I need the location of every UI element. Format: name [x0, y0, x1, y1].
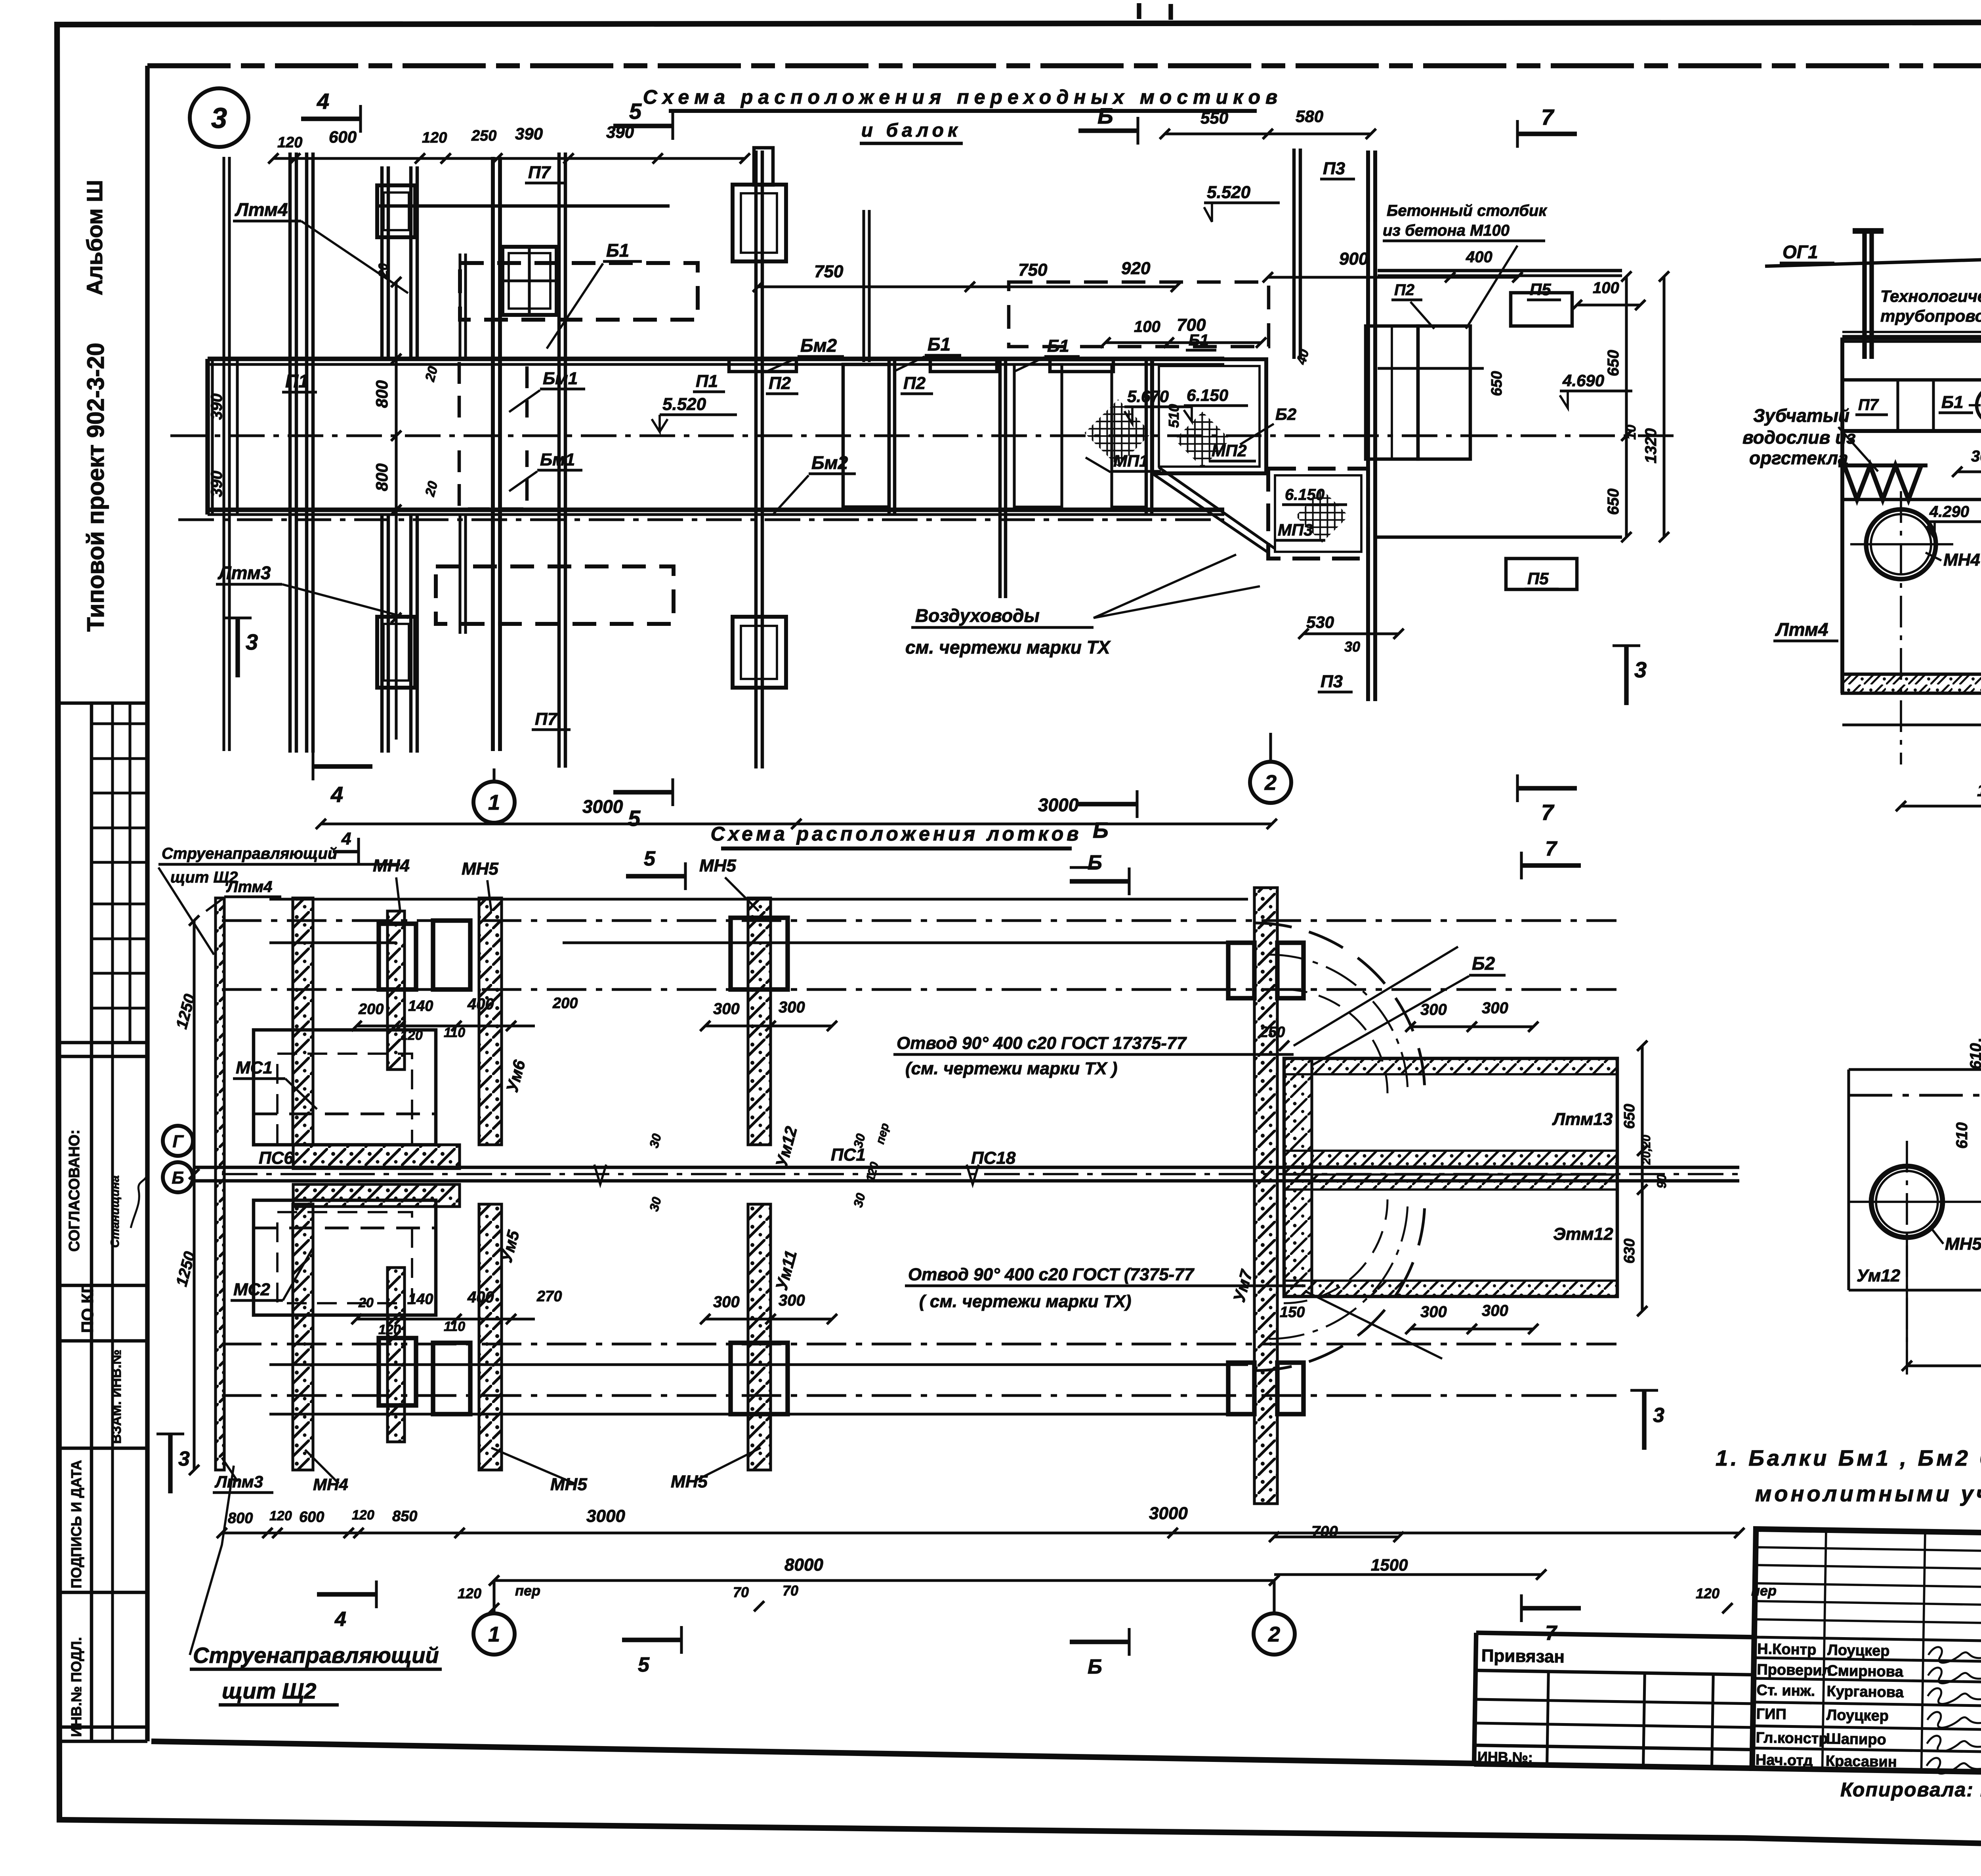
svg-text:Схема расположения переходных: Схема расположения переходных мостиков: [643, 86, 1283, 108]
svg-text:Отвод 90° 400 с20 ГОСТ (7375-7: Отвод 90° 400 с20 ГОСТ (7375-77: [908, 1265, 1195, 1284]
svg-text:Лтм3: Лтм3: [218, 562, 271, 583]
sec44 big circle left: [1866, 509, 1936, 579]
plan1 right vertical dims: [1625, 276, 1628, 537]
svg-text:П2: П2: [903, 374, 926, 393]
plan1 wall inband 3: [1145, 359, 1148, 515]
svg-text:3: 3: [178, 1447, 190, 1470]
svg-text:пер: пер: [515, 1582, 540, 1599]
plan1 wall P7 line: [557, 153, 561, 768]
plan1 box Bm2: [843, 364, 889, 507]
svg-text:110: 110: [444, 1319, 465, 1334]
plan2 MC1 structure: [254, 1030, 436, 1145]
svg-text:П2: П2: [769, 374, 791, 393]
sec44 handrail posts: [1862, 231, 1866, 359]
plan1 wall inband 2: [998, 359, 1002, 598]
plan1 vdim 800: [395, 282, 397, 740]
sec44 pipe circles: [1977, 387, 1981, 423]
svg-text:650: 650: [1621, 1104, 1638, 1129]
svg-text:Б1: Б1: [1941, 393, 1964, 412]
svg-text:Б2: Б2: [1472, 953, 1495, 974]
plan1 sec mark 4 top: [301, 116, 361, 121]
svg-text:монолитными участками стен.: монолитными участками стен.: [1755, 1481, 1981, 1506]
svg-text:700: 700: [1311, 1523, 1338, 1540]
svg-text:Нач.отд: Нач.отд: [1756, 1752, 1813, 1769]
svg-text:Ум12: Ум12: [1857, 1266, 1901, 1285]
plan1 dim 530: [1303, 632, 1399, 635]
plan2 axis dashdot top1: [222, 919, 1616, 922]
plan1 sec mark 4 bottom: [313, 764, 372, 768]
svg-text:3: 3: [1634, 657, 1647, 682]
plan2 grid circle 2: [1254, 1613, 1295, 1655]
svg-text:1320: 1320: [1642, 428, 1660, 463]
plan2 grid circle 1: [473, 1613, 515, 1655]
svg-text:МС1: МС1: [236, 1058, 273, 1077]
svg-text:П7: П7: [535, 709, 558, 729]
plan2 sec mark 7 bottom: [1521, 1606, 1581, 1610]
svg-text:СОГЛАСОВАНО:: СОГЛАСОВАНО:: [66, 1129, 83, 1252]
plan2 axis dashdot bot1: [222, 1342, 1616, 1345]
plan2 outlet left cap: [1284, 1058, 1312, 1296]
plan1 column P1: [380, 166, 384, 359]
svg-text:530: 530: [1306, 613, 1334, 631]
plan2 axis B channel: [194, 1166, 1739, 1169]
svg-text:4: 4: [317, 89, 329, 114]
plan2 channel breaks: [594, 1165, 606, 1184]
svg-text:70: 70: [733, 1584, 749, 1600]
svg-text:П1: П1: [285, 371, 309, 391]
plan1 top dim row: [273, 157, 745, 160]
svg-text:МН5: МН5: [1945, 1234, 1981, 1254]
svg-text:Б1: Б1: [928, 334, 950, 355]
plan2 pad boxes top: [379, 924, 416, 989]
plan2 outlet hatch mid: [1284, 1151, 1617, 1167]
inner drawing frame left: [145, 66, 149, 1741]
plan2 outlet channel frame: [1284, 1058, 1617, 1296]
svg-text:МН5: МН5: [699, 856, 736, 875]
plan1 mid verticals top2: [1292, 149, 1296, 359]
left strip verticals: [90, 703, 94, 1741]
svg-text:250: 250: [1260, 1024, 1285, 1041]
sec44 dim 1250 1250: [1901, 805, 1981, 807]
plan1 dim 700: [1105, 341, 1261, 344]
sec44 beam cells verticals: [1896, 380, 1899, 431]
svg-text:щит Щ2: щит Щ2: [170, 869, 238, 886]
plan1 axis B dash-dot: [170, 434, 1482, 437]
svg-text:Лтм13: Лтм13: [1552, 1110, 1613, 1129]
sec55 left frame lines: [1847, 1070, 1850, 1290]
plan1 grid circle 1: [473, 782, 515, 823]
svg-text:120: 120: [269, 1508, 292, 1523]
plan1 wall A pair: [288, 153, 292, 753]
svg-text:Бм1: Бм1: [540, 450, 575, 469]
plan2 bottom dims row1: [222, 1531, 460, 1534]
svg-text:5: 5: [638, 1653, 650, 1676]
sec44 bottom slab: [1842, 674, 1981, 693]
title block: [1474, 1525, 1981, 1783]
svg-text:100: 100: [1134, 318, 1160, 336]
svg-text:Струенаправляющий: Струенаправляющий: [162, 845, 337, 862]
svg-text:ПОДПИСЬ И ДАТА: ПОДПИСЬ И ДАТА: [68, 1460, 84, 1588]
svg-text:270: 270: [536, 1288, 562, 1305]
svg-text:3: 3: [1653, 1404, 1664, 1427]
svg-text:10: 10: [1624, 425, 1639, 440]
svg-text:400: 400: [1466, 248, 1492, 266]
plan2 dims top mid2: [705, 1024, 832, 1027]
svg-text:Лоуцкер: Лоуцкер: [1827, 1642, 1890, 1659]
svg-text:5.520: 5.520: [1207, 183, 1251, 202]
svg-text:3: 3: [211, 103, 227, 134]
svg-text:1500: 1500: [1371, 1556, 1408, 1574]
svg-text:из бетона М100: из бетона М100: [1383, 222, 1510, 239]
plan2 outlet hatch bottom: [1284, 1281, 1617, 1296]
plan2 outlet hatch top: [1284, 1058, 1617, 1074]
svg-text:Б: Б: [1097, 103, 1113, 128]
svg-text:Б: Б: [1088, 1655, 1102, 1678]
plan1 wall A box top: [377, 185, 415, 237]
sec44 lower zone line: [1842, 498, 1981, 501]
plan2 sec mark 3 right: [1642, 1390, 1646, 1450]
svg-text:1: 1: [488, 791, 500, 814]
plan2 grid circle B: [163, 1162, 193, 1192]
plan1 grid circle 3: [190, 88, 248, 147]
svg-text:Зубчатый: Зубчатый: [1753, 405, 1849, 426]
plan1 wall inband 1: [887, 359, 891, 515]
sec44 beam row top: [1842, 378, 1981, 382]
plan1 sec mark B bottom: [1078, 802, 1137, 806]
svg-text:920: 920: [1121, 259, 1151, 278]
svg-text:300: 300: [713, 1293, 740, 1311]
svg-text:Лтм3: Лтм3: [214, 1472, 263, 1491]
svg-text:120: 120: [352, 1508, 374, 1523]
svg-text:650: 650: [1489, 371, 1505, 396]
svg-text:150: 150: [1280, 1304, 1305, 1321]
plan2 MC2 structure: [254, 1200, 436, 1315]
svg-text:300: 300: [713, 1000, 740, 1018]
svg-text:Гл.констр: Гл.констр: [1756, 1729, 1828, 1747]
svg-text:П5: П5: [1527, 569, 1549, 588]
svg-text:Смирнова: Смирнова: [1827, 1662, 1904, 1680]
svg-text:Б: Б: [1088, 851, 1102, 874]
plan2 sec mark 4 bottom: [317, 1592, 376, 1596]
svg-text:800: 800: [372, 380, 391, 408]
svg-text:650: 650: [1605, 350, 1622, 376]
svg-text:140: 140: [408, 998, 433, 1014]
svg-text:8000: 8000: [784, 1555, 823, 1575]
svg-text:4.690: 4.690: [1562, 371, 1604, 390]
svg-text:600: 600: [329, 128, 357, 146]
plan2 dim 300 300 outlet bot: [1410, 1327, 1533, 1330]
plan2 sec mark 3 left: [168, 1434, 172, 1493]
svg-text:П7: П7: [1858, 396, 1879, 414]
svg-text:Б: Б: [1093, 818, 1109, 843]
plan1 diag to MP3: [1152, 473, 1268, 553]
svg-text:П7: П7: [528, 163, 552, 182]
svg-text:( см. чертежи марки ТХ): ( см. чертежи марки ТХ): [919, 1292, 1131, 1311]
plan2 hatched walls: [216, 898, 224, 1470]
svg-text:7: 7: [1541, 105, 1555, 130]
svg-text:4: 4: [341, 829, 351, 848]
svg-text:110: 110: [444, 1025, 465, 1040]
svg-text:Привязан: Привязан: [1481, 1646, 1565, 1666]
svg-text:200: 200: [552, 995, 578, 1012]
plan2 sec mark B top: [1070, 879, 1129, 883]
plan1 axis B circle: [170, 442, 174, 446]
svg-text:7: 7: [1541, 800, 1555, 825]
svg-text:1. Балки Бм1 , Бм2 бетонироват: 1. Балки Бм1 , Бм2 бетонировать одноврем…: [1716, 1445, 1981, 1470]
plan2 bot channel lines: [269, 1363, 1248, 1366]
svg-text:П3: П3: [1323, 159, 1345, 178]
svg-text:550: 550: [1200, 109, 1228, 127]
plan1 hatch MP3: [1296, 490, 1349, 543]
plan2 bottom dim 8000: [494, 1579, 1274, 1582]
plan1 Bm1 brackets top: [459, 358, 527, 418]
svg-text:Лтм4: Лтм4: [235, 199, 288, 220]
svg-text:6.150: 6.150: [1285, 486, 1324, 503]
svg-text:Г: Г: [172, 1132, 184, 1151]
svg-text:П1: П1: [696, 372, 718, 391]
svg-text:300: 300: [1482, 999, 1508, 1017]
svg-text:водослив из: водослив из: [1742, 427, 1856, 448]
svg-text:ОГ1: ОГ1: [1783, 242, 1818, 262]
plan1 band left cap: [205, 359, 210, 515]
svg-text:Отвод 90° 400 с20 ГОСТ 17375-7: Отвод 90° 400 с20 ГОСТ 17375-77: [897, 1033, 1187, 1053]
plan1 window box: [502, 247, 557, 315]
svg-text:4.290: 4.290: [1929, 503, 1969, 520]
sec44 teeth left: [1844, 465, 1921, 500]
plan1 sec mark 5 top: [613, 124, 673, 128]
svg-text:250: 250: [471, 128, 496, 144]
sec44 dim row mid: [1957, 470, 1981, 473]
svg-text:120: 120: [1696, 1585, 1720, 1601]
plan2 dims bot mid: [357, 1317, 535, 1320]
left strip upper table rows: [92, 722, 147, 725]
svg-text:7: 7: [1545, 837, 1557, 860]
svg-text:610: 610: [1953, 1122, 1971, 1149]
svg-text:5: 5: [644, 847, 656, 870]
svg-text:850: 850: [392, 1508, 417, 1525]
plan1 box P5 top: [1511, 293, 1572, 326]
svg-text:Бм2: Бм2: [811, 452, 848, 473]
svg-text:МН4: МН4: [313, 1475, 348, 1494]
svg-text:750: 750: [1018, 260, 1048, 280]
plan1 sec mark 7 top: [1517, 132, 1577, 136]
plan2 curve arcs top: [1254, 923, 1425, 1093]
sec55 axis dash: [1849, 1094, 1981, 1096]
inner drawing frame top dashed: [147, 63, 1981, 69]
svg-text:3000: 3000: [582, 796, 623, 817]
svg-text:300: 300: [1482, 1302, 1508, 1319]
svg-text:30: 30: [1344, 639, 1360, 655]
svg-text:3000: 3000: [1038, 795, 1079, 815]
plan1 beam B1 dashed bottom: [436, 566, 674, 624]
svg-text:Б2: Б2: [1275, 405, 1296, 423]
svg-text:Схема расположения лотков: Схема расположения лотков: [711, 823, 1082, 845]
svg-text:Шапиро: Шапиро: [1826, 1731, 1886, 1748]
svg-text:3: 3: [246, 629, 258, 654]
svg-text:МН4: МН4: [373, 856, 410, 875]
svg-text:П5: П5: [1530, 280, 1551, 299]
plan1 wall B mid: [458, 254, 461, 359]
svg-text:ИНВ.№ ПОДЛ.: ИНВ.№ ПОДЛ.: [68, 1637, 84, 1737]
sec55 dim 1250 1250: [1907, 1364, 1981, 1367]
plan2 sec mark 7 top: [1521, 863, 1581, 867]
top registration ticks: [1137, 3, 1141, 19]
svg-text:90: 90: [1655, 1174, 1669, 1188]
svg-text:390: 390: [515, 124, 543, 143]
plan1 mid wall boxes: [733, 185, 786, 261]
svg-text:6.150: 6.150: [1187, 386, 1228, 404]
plan1 bench columns: [1366, 326, 1418, 459]
svg-text:Лоуцкер: Лоуцкер: [1826, 1707, 1889, 1724]
svg-text:МН4: МН4: [1943, 550, 1980, 570]
inner drawing frame bottom: [151, 1741, 1478, 1764]
svg-text:МН5: МН5: [671, 1472, 708, 1491]
plan2 dims top mid: [357, 1024, 535, 1027]
svg-text:ПС6: ПС6: [259, 1148, 294, 1168]
plan2 dim 300 300 outlet top: [1410, 1025, 1533, 1028]
svg-text:630: 630: [1621, 1239, 1638, 1264]
svg-text:МС2: МС2: [233, 1280, 270, 1299]
svg-text:щит Щ2: щит Щ2: [222, 1678, 316, 1703]
plan1 junction wall grid2: [1366, 151, 1370, 701]
svg-text:(см. чертежи марки ТХ ): (см. чертежи марки ТХ ): [905, 1059, 1117, 1078]
svg-text:Б: Б: [172, 1168, 184, 1188]
svg-text:800: 800: [372, 463, 391, 491]
svg-text:5: 5: [628, 806, 641, 831]
plan1 wall Ltm4 line: [222, 157, 225, 751]
svg-text:Курганова: Курганова: [1826, 1683, 1904, 1701]
svg-text:120: 120: [400, 1028, 423, 1043]
plan1 Bm1 brackets bottom: [459, 450, 527, 509]
plan1 sec mark 3 left: [235, 618, 240, 677]
svg-text:и балок: и балок: [861, 120, 962, 141]
svg-text:3000: 3000: [586, 1506, 625, 1526]
plan1 junction box MP3: [1268, 469, 1368, 559]
plan1 right top verticals: [1366, 151, 1370, 222]
svg-text:ГИП: ГИП: [1756, 1706, 1786, 1723]
sec44 rail line left: [1765, 256, 1981, 266]
svg-text:600: 600: [299, 1509, 324, 1525]
svg-text:Альбом Ш: Альбом Ш: [82, 180, 107, 296]
svg-text:300: 300: [1420, 1303, 1447, 1321]
plan1 dim 750 750 920: [758, 285, 1176, 288]
plan2 pad boxes bottom: [379, 1338, 416, 1405]
plan1 top platform line: [376, 204, 670, 208]
svg-text:Н.Контр: Н.Контр: [1757, 1641, 1817, 1658]
svg-text:ВЗАМ. ИНВ.№: ВЗАМ. ИНВ.№: [109, 1350, 124, 1444]
sec55 big circle left: [1871, 1166, 1943, 1237]
plan1 grid circle 2: [1250, 762, 1291, 803]
plan1 sec mark B top: [1078, 128, 1138, 133]
plan1 sec mark 7 bottom: [1517, 786, 1577, 790]
plan1 mid verticals top: [862, 210, 865, 362]
left strip lower table rows: [57, 1041, 147, 1045]
svg-text:1: 1: [488, 1622, 500, 1646]
svg-text:120: 120: [277, 134, 302, 151]
svg-text:20: 20: [358, 1295, 374, 1310]
plan1 dashed rects mid top: [1009, 282, 1269, 347]
svg-text:400: 400: [467, 1289, 494, 1306]
plan2 grid circle G: [163, 1126, 193, 1156]
svg-text:580: 580: [1296, 107, 1323, 126]
svg-text:Бетонный столбик: Бетонный столбик: [1387, 202, 1547, 219]
svg-text:Бм1: Бм1: [543, 369, 578, 388]
sec44 beam row bottom: [1842, 429, 1981, 433]
sec44 floor slab: [1842, 335, 1981, 340]
plan1 wall A box bottom: [377, 617, 415, 688]
svg-text:ПО КГ: ПО КГ: [78, 1284, 97, 1333]
svg-text:Типовой проект 902-3-20: Типовой проект 902-3-20: [82, 343, 109, 632]
plan1 sec mark 5 bottom: [613, 790, 673, 794]
plan1 hatch MP1: [1084, 399, 1152, 467]
svg-text:МП1: МП1: [1113, 452, 1149, 470]
plan2 curve arcs bottom: [1254, 1200, 1425, 1371]
plan2 sec mark 5 bottom: [622, 1638, 681, 1642]
svg-text:П3: П3: [1321, 672, 1343, 691]
svg-text:Технологические: Технологические: [1880, 287, 1981, 305]
plan2 sec mark B bottom: [1070, 1640, 1129, 1644]
svg-text:Лтм4: Лтм4: [1775, 619, 1828, 640]
plan2 top channel lines: [269, 898, 1248, 900]
svg-text:Бм2: Бм2: [800, 335, 837, 356]
plan1 box P5 bottom: [1506, 559, 1577, 589]
plan2 dim 700 1500: [1274, 1535, 1399, 1538]
plan1 junction box MP2: [1152, 359, 1266, 473]
svg-text:Проверил: Проверил: [1757, 1661, 1832, 1679]
svg-text:МН5: МН5: [550, 1475, 587, 1494]
svg-text:Ст. инж.: Ст. инж.: [1756, 1682, 1815, 1699]
svg-text:3000: 3000: [1149, 1504, 1188, 1523]
svg-text:300: 300: [1420, 1001, 1447, 1018]
svg-text:20,20: 20,20: [1640, 1135, 1653, 1165]
sec55 bottom line: [1849, 1289, 1981, 1291]
svg-text:900: 900: [1339, 249, 1368, 269]
plan1 hatch MP2: [1174, 412, 1230, 467]
svg-text:см. чертежи марки ТХ: см. чертежи марки ТХ: [905, 637, 1111, 658]
svg-text:300: 300: [1971, 448, 1981, 465]
plan2 pad boxes right wall: [1228, 943, 1254, 998]
svg-text:Струенаправляющий: Струенаправляющий: [193, 1643, 439, 1668]
svg-text:2: 2: [1264, 771, 1277, 795]
svg-text:140: 140: [408, 1291, 433, 1308]
plan2 dims bot mid2: [705, 1317, 832, 1320]
plan1 sec mark 3 right: [1624, 646, 1628, 705]
plan1 right band lines: [1378, 269, 1622, 273]
svg-text:300: 300: [779, 1292, 805, 1309]
svg-text:П2: П2: [1394, 281, 1414, 299]
sec44 left wall: [1840, 337, 1844, 693]
plan1 main band top edge: [208, 357, 1224, 361]
svg-text:5.520: 5.520: [662, 395, 706, 414]
svg-text:120: 120: [378, 1322, 401, 1337]
svg-text:300: 300: [779, 999, 805, 1016]
svg-text:4: 4: [334, 1608, 346, 1631]
svg-text:70: 70: [782, 1582, 798, 1599]
svg-text:2: 2: [1268, 1622, 1280, 1646]
svg-text:510: 510: [1166, 404, 1182, 428]
svg-text:200: 200: [358, 1001, 384, 1018]
svg-text:650: 650: [1605, 488, 1622, 515]
plan1 wall B main pair: [491, 157, 495, 751]
svg-text:610: 610: [1967, 1043, 1981, 1070]
plan1 dim 900 400: [1268, 276, 1517, 278]
svg-text:5.670: 5.670: [1127, 387, 1169, 406]
plan2 sec mark 5 top: [626, 874, 685, 878]
plan1 main band bottom edge: [208, 507, 1224, 512]
svg-text:оргстекла: оргстекла: [1749, 448, 1848, 468]
svg-text:800: 800: [228, 1510, 253, 1527]
plan2 bottom dim 3000 a: [460, 1531, 1173, 1534]
